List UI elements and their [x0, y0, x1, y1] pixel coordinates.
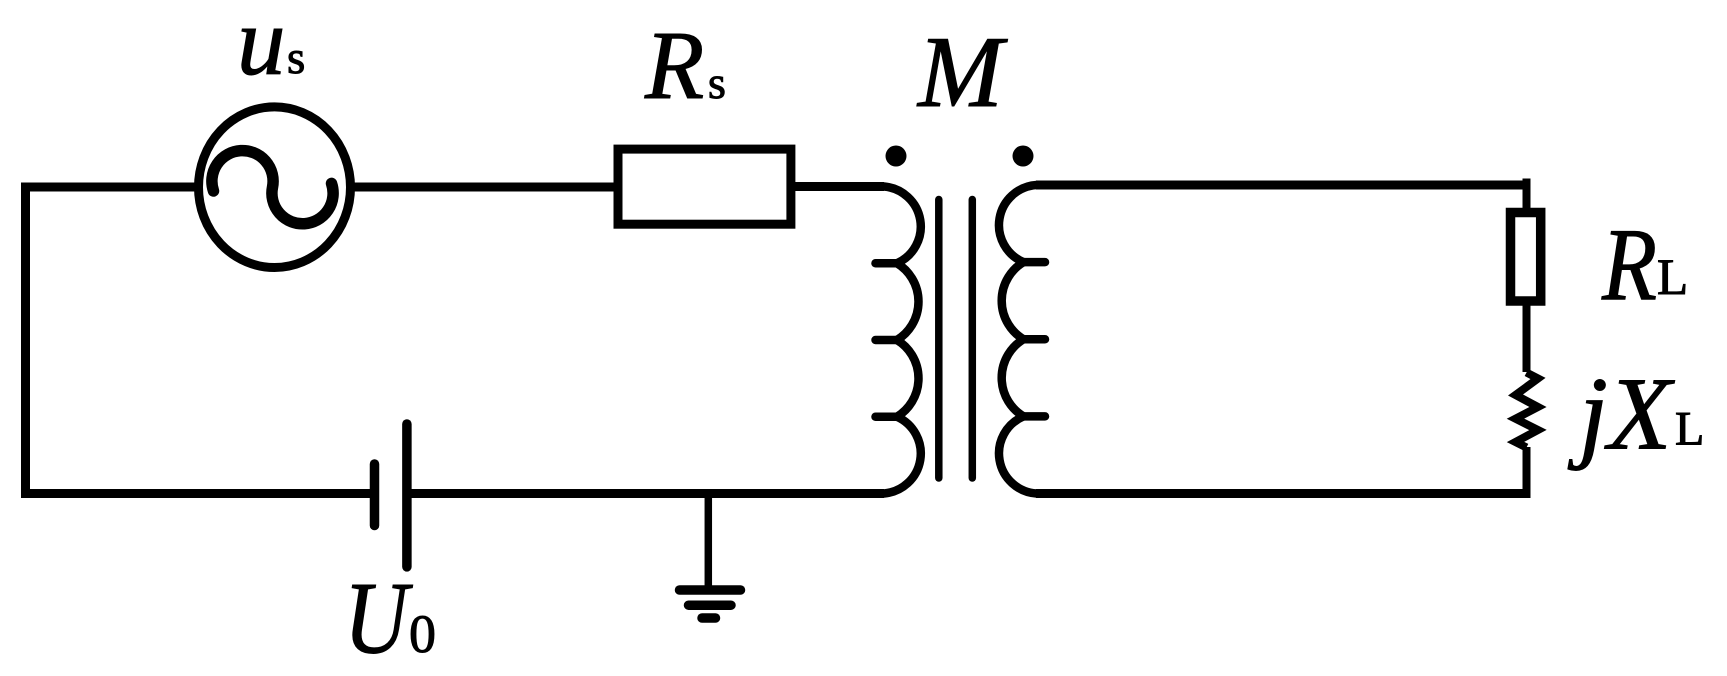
wire secondary bottom: [1036, 489, 1531, 498]
ground: [680, 494, 741, 619]
wire from battery to transformer primary bottom: [407, 489, 884, 498]
resistor R_L: [1511, 213, 1541, 302]
svg-text:L: L: [1657, 250, 1688, 306]
inductor jX_L (zigzag reactance): [1516, 373, 1539, 448]
wire from AC source to resistor R_s: [354, 183, 615, 192]
svg-text:R: R: [644, 12, 704, 119]
wire between R_L and jX_L: [1523, 304, 1531, 372]
svg-text:L: L: [1675, 403, 1704, 456]
wire from resistor to transformer primary: [795, 182, 884, 191]
ac source u_s (circle): [199, 107, 351, 268]
polarity dot (primary): [886, 146, 907, 167]
wire left vertical (primary loop): [21, 183, 30, 499]
svg-text:U: U: [344, 562, 413, 676]
svg-text:R: R: [1601, 208, 1657, 323]
svg-text:s: s: [287, 32, 305, 84]
ac source sine wave: [212, 151, 333, 224]
svg-text:s: s: [708, 57, 726, 108]
wire below jX_L to bottom-right corner: [1523, 447, 1531, 498]
battery U0 short plate: [370, 464, 380, 526]
battery U0 long plate: [402, 424, 412, 567]
svg-text:0: 0: [409, 604, 436, 664]
svg-text:jX: jX: [1567, 357, 1675, 472]
transformer core: [939, 200, 973, 479]
wire top-left segment to AC source: [21, 183, 196, 192]
polarity dot (secondary): [1013, 146, 1034, 167]
svg-text:M: M: [916, 16, 1008, 129]
wire secondary top: [1036, 181, 1527, 190]
transformer secondary winding L2: [999, 185, 1045, 494]
resistor R_s: [618, 149, 791, 224]
wire right vertical to R_L: [1523, 179, 1531, 213]
transformer primary winding L1: [876, 187, 921, 494]
wire bottom-left segment to battery: [21, 489, 374, 498]
svg-text:u: u: [237, 0, 286, 95]
